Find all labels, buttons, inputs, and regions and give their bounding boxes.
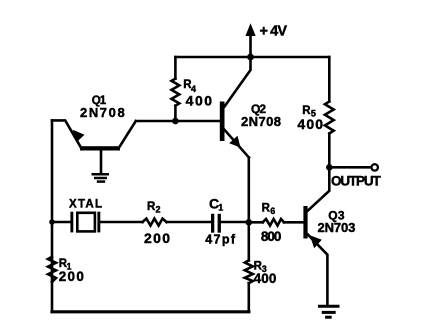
svg-text:200: 200 bbox=[59, 269, 84, 284]
svg-text:2N708: 2N708 bbox=[80, 105, 125, 120]
svg-text:2: 2 bbox=[156, 205, 161, 215]
svg-text:2N703: 2N703 bbox=[318, 220, 356, 235]
svg-text:+ 4V: + 4V bbox=[260, 24, 288, 40]
svg-text:R: R bbox=[262, 203, 271, 215]
svg-text:800: 800 bbox=[261, 229, 282, 244]
svg-text:2N708: 2N708 bbox=[241, 114, 281, 129]
svg-text:200: 200 bbox=[144, 230, 170, 246]
svg-text:1: 1 bbox=[218, 202, 223, 212]
svg-text:47pf: 47pf bbox=[205, 233, 236, 247]
svg-text:400: 400 bbox=[297, 116, 323, 132]
svg-text:400: 400 bbox=[186, 93, 213, 109]
svg-text:OUTPUT: OUTPUT bbox=[331, 173, 381, 188]
svg-text:XTAL: XTAL bbox=[69, 199, 102, 211]
svg-text:6: 6 bbox=[270, 206, 275, 216]
svg-text:400: 400 bbox=[254, 271, 277, 286]
